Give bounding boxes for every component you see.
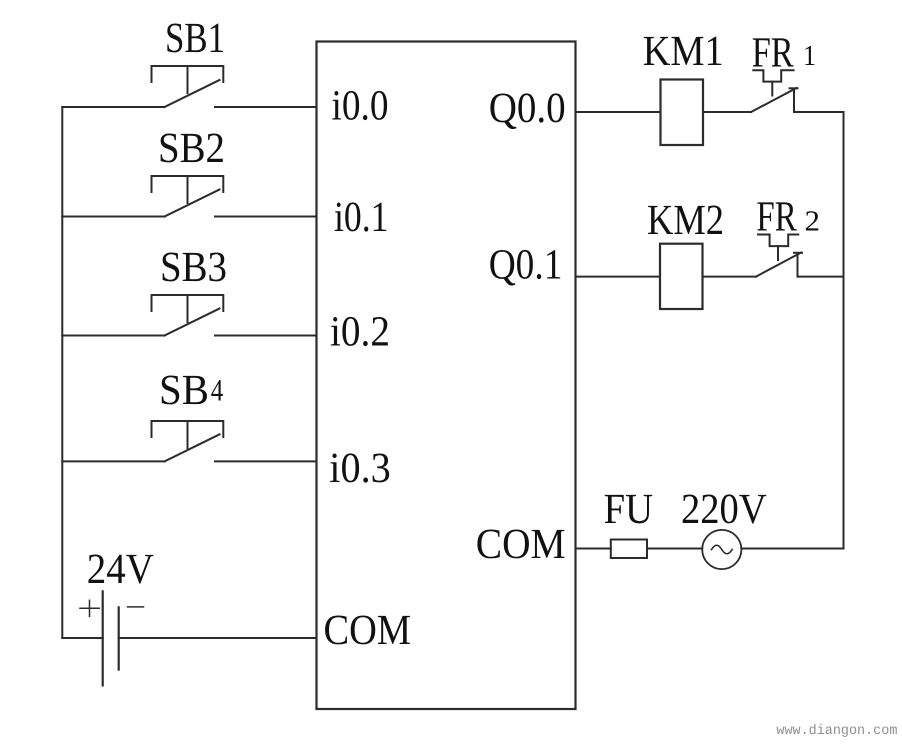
wire COM to fuse	[576, 548, 611, 550]
svg-text:2: 2	[805, 206, 821, 238]
svg-text:COM: COM	[324, 607, 412, 654]
svg-text:SB2: SB2	[158, 125, 225, 172]
svg-text:KM2: KM2	[647, 197, 724, 244]
PLC controller box U1	[317, 42, 576, 710]
svg-text:FR: FR	[756, 194, 797, 241]
pushbutton SB2	[152, 176, 224, 217]
wire KM1 to FR1	[703, 111, 751, 113]
svg-text:COM: COM	[476, 521, 566, 568]
wire Q0.0 to KM1	[576, 111, 661, 113]
svg-text:Q0.1: Q0.1	[489, 241, 563, 288]
svg-text:i0.1: i0.1	[334, 194, 389, 241]
pushbutton SB1	[152, 66, 224, 107]
left bus wire	[61, 107, 63, 638]
svg-text:www.diangon.com: www.diangon.com	[776, 723, 897, 739]
wire SB3 right	[215, 335, 317, 337]
thermal relay contact FR2	[756, 235, 802, 277]
svg-text:i0.2: i0.2	[330, 309, 390, 356]
wire SB1 left	[62, 106, 164, 108]
svg-text:KM1: KM1	[643, 28, 724, 75]
pushbutton SB4	[152, 421, 224, 461]
svg-text:24V: 24V	[87, 546, 154, 593]
svg-text:FR: FR	[752, 29, 794, 76]
wire SB4 right	[215, 460, 317, 462]
wire FR1 to right bus	[794, 111, 844, 113]
right bus wire	[843, 112, 845, 549]
contactor coil KM1	[661, 80, 704, 146]
AC source 220V	[702, 530, 741, 569]
pushbutton SB3	[152, 295, 224, 336]
battery B1 24V	[103, 591, 119, 685]
svg-text:i0.0: i0.0	[332, 83, 389, 130]
wire FR2 to right bus	[798, 276, 844, 278]
svg-text:SB3: SB3	[160, 244, 227, 291]
wire SB3 left	[62, 335, 164, 337]
wire SB2 right	[215, 216, 317, 218]
svg-text:SB: SB	[159, 367, 209, 414]
wire battery left	[62, 637, 102, 639]
wire Q0.1 to KM2	[576, 276, 660, 278]
svg-text:i0.3: i0.3	[329, 445, 391, 492]
plus sign	[80, 600, 99, 616]
svg-text:FU: FU	[604, 486, 653, 533]
svg-text:4: 4	[211, 373, 224, 408]
svg-text:SB1: SB1	[165, 15, 225, 62]
wire source to right bus	[741, 548, 843, 550]
wire SB4 left	[62, 460, 164, 462]
wire SB1 right	[215, 106, 317, 108]
svg-text:Q0.0: Q0.0	[489, 85, 566, 132]
thermal relay contact FR1	[751, 70, 798, 112]
wire fuse to source	[647, 548, 702, 550]
svg-text:1: 1	[803, 40, 816, 72]
minus sign	[128, 606, 144, 608]
svg-text:220V: 220V	[681, 486, 767, 533]
wire KM2 to FR2	[703, 276, 757, 278]
fuse FU	[611, 540, 647, 559]
wire SB2 left	[62, 216, 164, 218]
contactor coil KM2	[660, 244, 703, 309]
wire battery right to COM	[119, 637, 317, 639]
